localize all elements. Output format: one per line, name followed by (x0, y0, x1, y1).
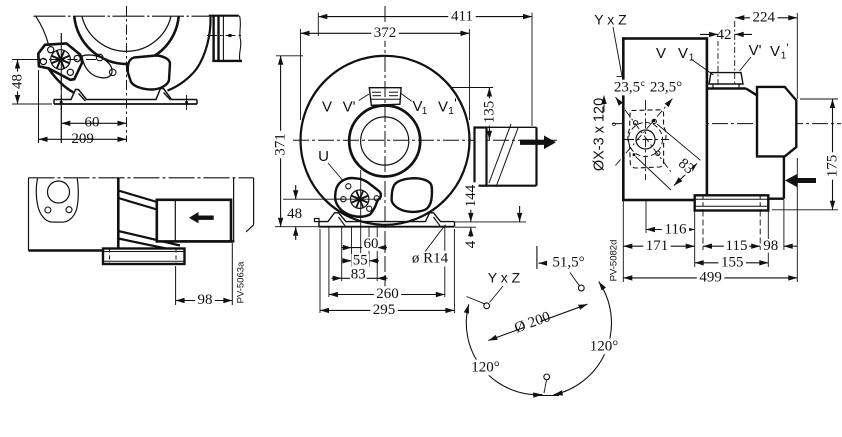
svg-text:4: 4 (463, 240, 479, 248)
svg-text:1: 1 (689, 53, 695, 64)
svg-text:': ' (454, 95, 457, 111)
svg-text:V: V (770, 43, 780, 60)
svg-text:1: 1 (422, 106, 428, 117)
svg-text:Y x Z: Y x Z (488, 270, 521, 286)
svg-text:48: 48 (287, 206, 302, 222)
svg-text:23,5°: 23,5° (614, 80, 646, 96)
svg-text:Y x Z: Y x Z (594, 12, 627, 28)
svg-text:155: 155 (721, 255, 744, 271)
svg-text:42: 42 (717, 27, 732, 43)
svg-text:V: V (656, 45, 666, 62)
svg-text:371: 371 (273, 133, 289, 156)
svg-text:116: 116 (665, 221, 687, 237)
svg-text:48: 48 (10, 74, 26, 89)
svg-text:144: 144 (463, 184, 479, 207)
svg-text:ØX-3 x 120: ØX-3 x 120 (592, 98, 608, 171)
svg-text:60: 60 (364, 236, 379, 252)
svg-text:PV-5063a: PV-5063a (235, 261, 246, 303)
svg-text:23,5°: 23,5° (650, 80, 682, 96)
svg-text:': ' (786, 41, 788, 55)
svg-text:171: 171 (646, 238, 669, 254)
svg-text:120°: 120° (471, 360, 500, 376)
svg-text:PV-5082d: PV-5082d (608, 240, 619, 282)
svg-text:411: 411 (451, 8, 473, 24)
svg-text:V: V (322, 99, 332, 116)
svg-text:83: 83 (351, 266, 366, 282)
svg-text:115: 115 (726, 238, 748, 254)
svg-text:135: 135 (481, 101, 497, 124)
svg-text:60: 60 (85, 115, 100, 131)
svg-text:260: 260 (376, 286, 399, 302)
svg-text:V: V (678, 45, 688, 62)
svg-text:51,5°: 51,5° (552, 255, 584, 271)
svg-text:V': V' (343, 99, 356, 116)
svg-text:V': V' (749, 42, 762, 59)
svg-text:V: V (438, 99, 448, 116)
svg-text:ø R14: ø R14 (412, 251, 449, 267)
svg-text:372: 372 (374, 25, 397, 41)
svg-text:295: 295 (373, 302, 396, 318)
svg-text:175: 175 (825, 155, 841, 178)
svg-text:120°: 120° (590, 339, 619, 355)
svg-text:°: ° (611, 120, 616, 135)
svg-text:499: 499 (699, 270, 722, 286)
svg-text:U: U (318, 148, 329, 165)
svg-text:98: 98 (198, 292, 213, 308)
svg-text:98: 98 (763, 238, 778, 254)
svg-text:224: 224 (753, 10, 776, 26)
